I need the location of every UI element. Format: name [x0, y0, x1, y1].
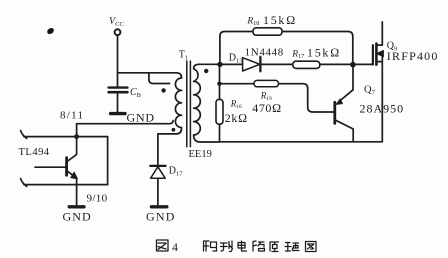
capacitor CB — [109, 87, 142, 99]
wire D17 branch from primary bottom — [158, 134, 177, 166]
svg-text:TL494: TL494 — [19, 147, 50, 158]
TL494 bottom wire — [24, 184, 108, 186]
wire node A up and across row1 to gate node — [220, 32, 353, 65]
svg-text:8/11: 8/11 — [60, 110, 84, 122]
svg-text:1N4448: 1N4448 — [245, 47, 284, 59]
ground bar under TL494 — [63, 207, 92, 224]
TL494 right vertical wire — [107, 137, 109, 185]
wire Vcc node to transformer primary top — [118, 72, 177, 74]
svg-text:2kΩ: 2kΩ — [225, 111, 248, 125]
diode D13 1N4448 — [229, 47, 284, 72]
wire stepped lead to primary winding — [149, 73, 170, 84]
Vcc terminal — [109, 16, 124, 35]
svg-text:470Ω: 470Ω — [252, 101, 281, 115]
svg-text:R17: R17 — [291, 50, 304, 61]
resistor R17 — [291, 46, 341, 69]
break mark bottom — [21, 179, 27, 187]
transistor Q inside TL494 — [35, 137, 77, 206]
wire node A down to row3 node — [219, 64, 221, 83]
transistor Q7 28A950 — [335, 65, 404, 142]
resistor R16 2k — [216, 84, 248, 142]
resistor R18 — [246, 13, 297, 35]
polarity dot secondary — [204, 69, 208, 73]
row2 wire node A to MOSFET gate — [220, 63, 373, 65]
svg-text:EE19: EE19 — [189, 149, 212, 160]
bottom source wire — [200, 141, 382, 143]
svg-text:4: 4 — [172, 240, 178, 254]
caption 驱动电路原理图 — [204, 241, 317, 252]
ground bar at CB — [111, 111, 155, 125]
svg-text:GND: GND — [146, 210, 176, 224]
svg-text:15kΩ: 15kΩ — [307, 46, 341, 60]
break mark top — [21, 131, 27, 139]
svg-text:Q7: Q7 — [364, 85, 376, 97]
svg-text:15kΩ: 15kΩ — [263, 13, 297, 27]
junction node gate — [350, 62, 356, 68]
wire D17 to ground — [157, 178, 159, 206]
transformer secondary winding — [194, 64, 201, 142]
polarity dot primary bottom — [172, 128, 176, 132]
resistor R19 470 — [252, 80, 281, 115]
MOSFET Q9 IRFP400 — [373, 22, 439, 142]
diode D17 — [150, 166, 183, 179]
svg-text:R16: R16 — [230, 99, 242, 111]
polarity dot primary top — [161, 88, 165, 92]
transformer primary winding — [175, 73, 181, 134]
wire secondary top to node A — [199, 63, 220, 65]
ink blot mark — [46, 27, 55, 36]
junction node collector — [74, 134, 79, 139]
wire 8/11 from TL494 collector node to primary bottom — [77, 121, 174, 137]
wire capacitor to ground — [117, 94, 119, 113]
TL494 top wire — [24, 136, 108, 138]
junction node row3 — [217, 82, 221, 86]
wire Vcc to capacitor CB — [117, 35, 119, 87]
transformer core — [187, 61, 191, 147]
svg-text:T1: T1 — [179, 50, 188, 62]
svg-text:R18: R18 — [246, 17, 259, 28]
svg-text:9/10: 9/10 — [87, 193, 108, 205]
row3 wire to Q7 base — [219, 84, 333, 112]
svg-text:GND: GND — [127, 111, 155, 125]
svg-text:VCC: VCC — [109, 16, 124, 28]
junction node A — [217, 62, 222, 67]
svg-text:CB: CB — [130, 87, 142, 99]
ground bar under D17 — [146, 207, 176, 224]
svg-text:D13: D13 — [229, 53, 243, 65]
svg-text:IRFP400: IRFP400 — [387, 49, 439, 63]
caption 图 4 — [157, 240, 179, 254]
svg-text:D17: D17 — [169, 166, 183, 178]
svg-text:GND: GND — [63, 210, 92, 224]
